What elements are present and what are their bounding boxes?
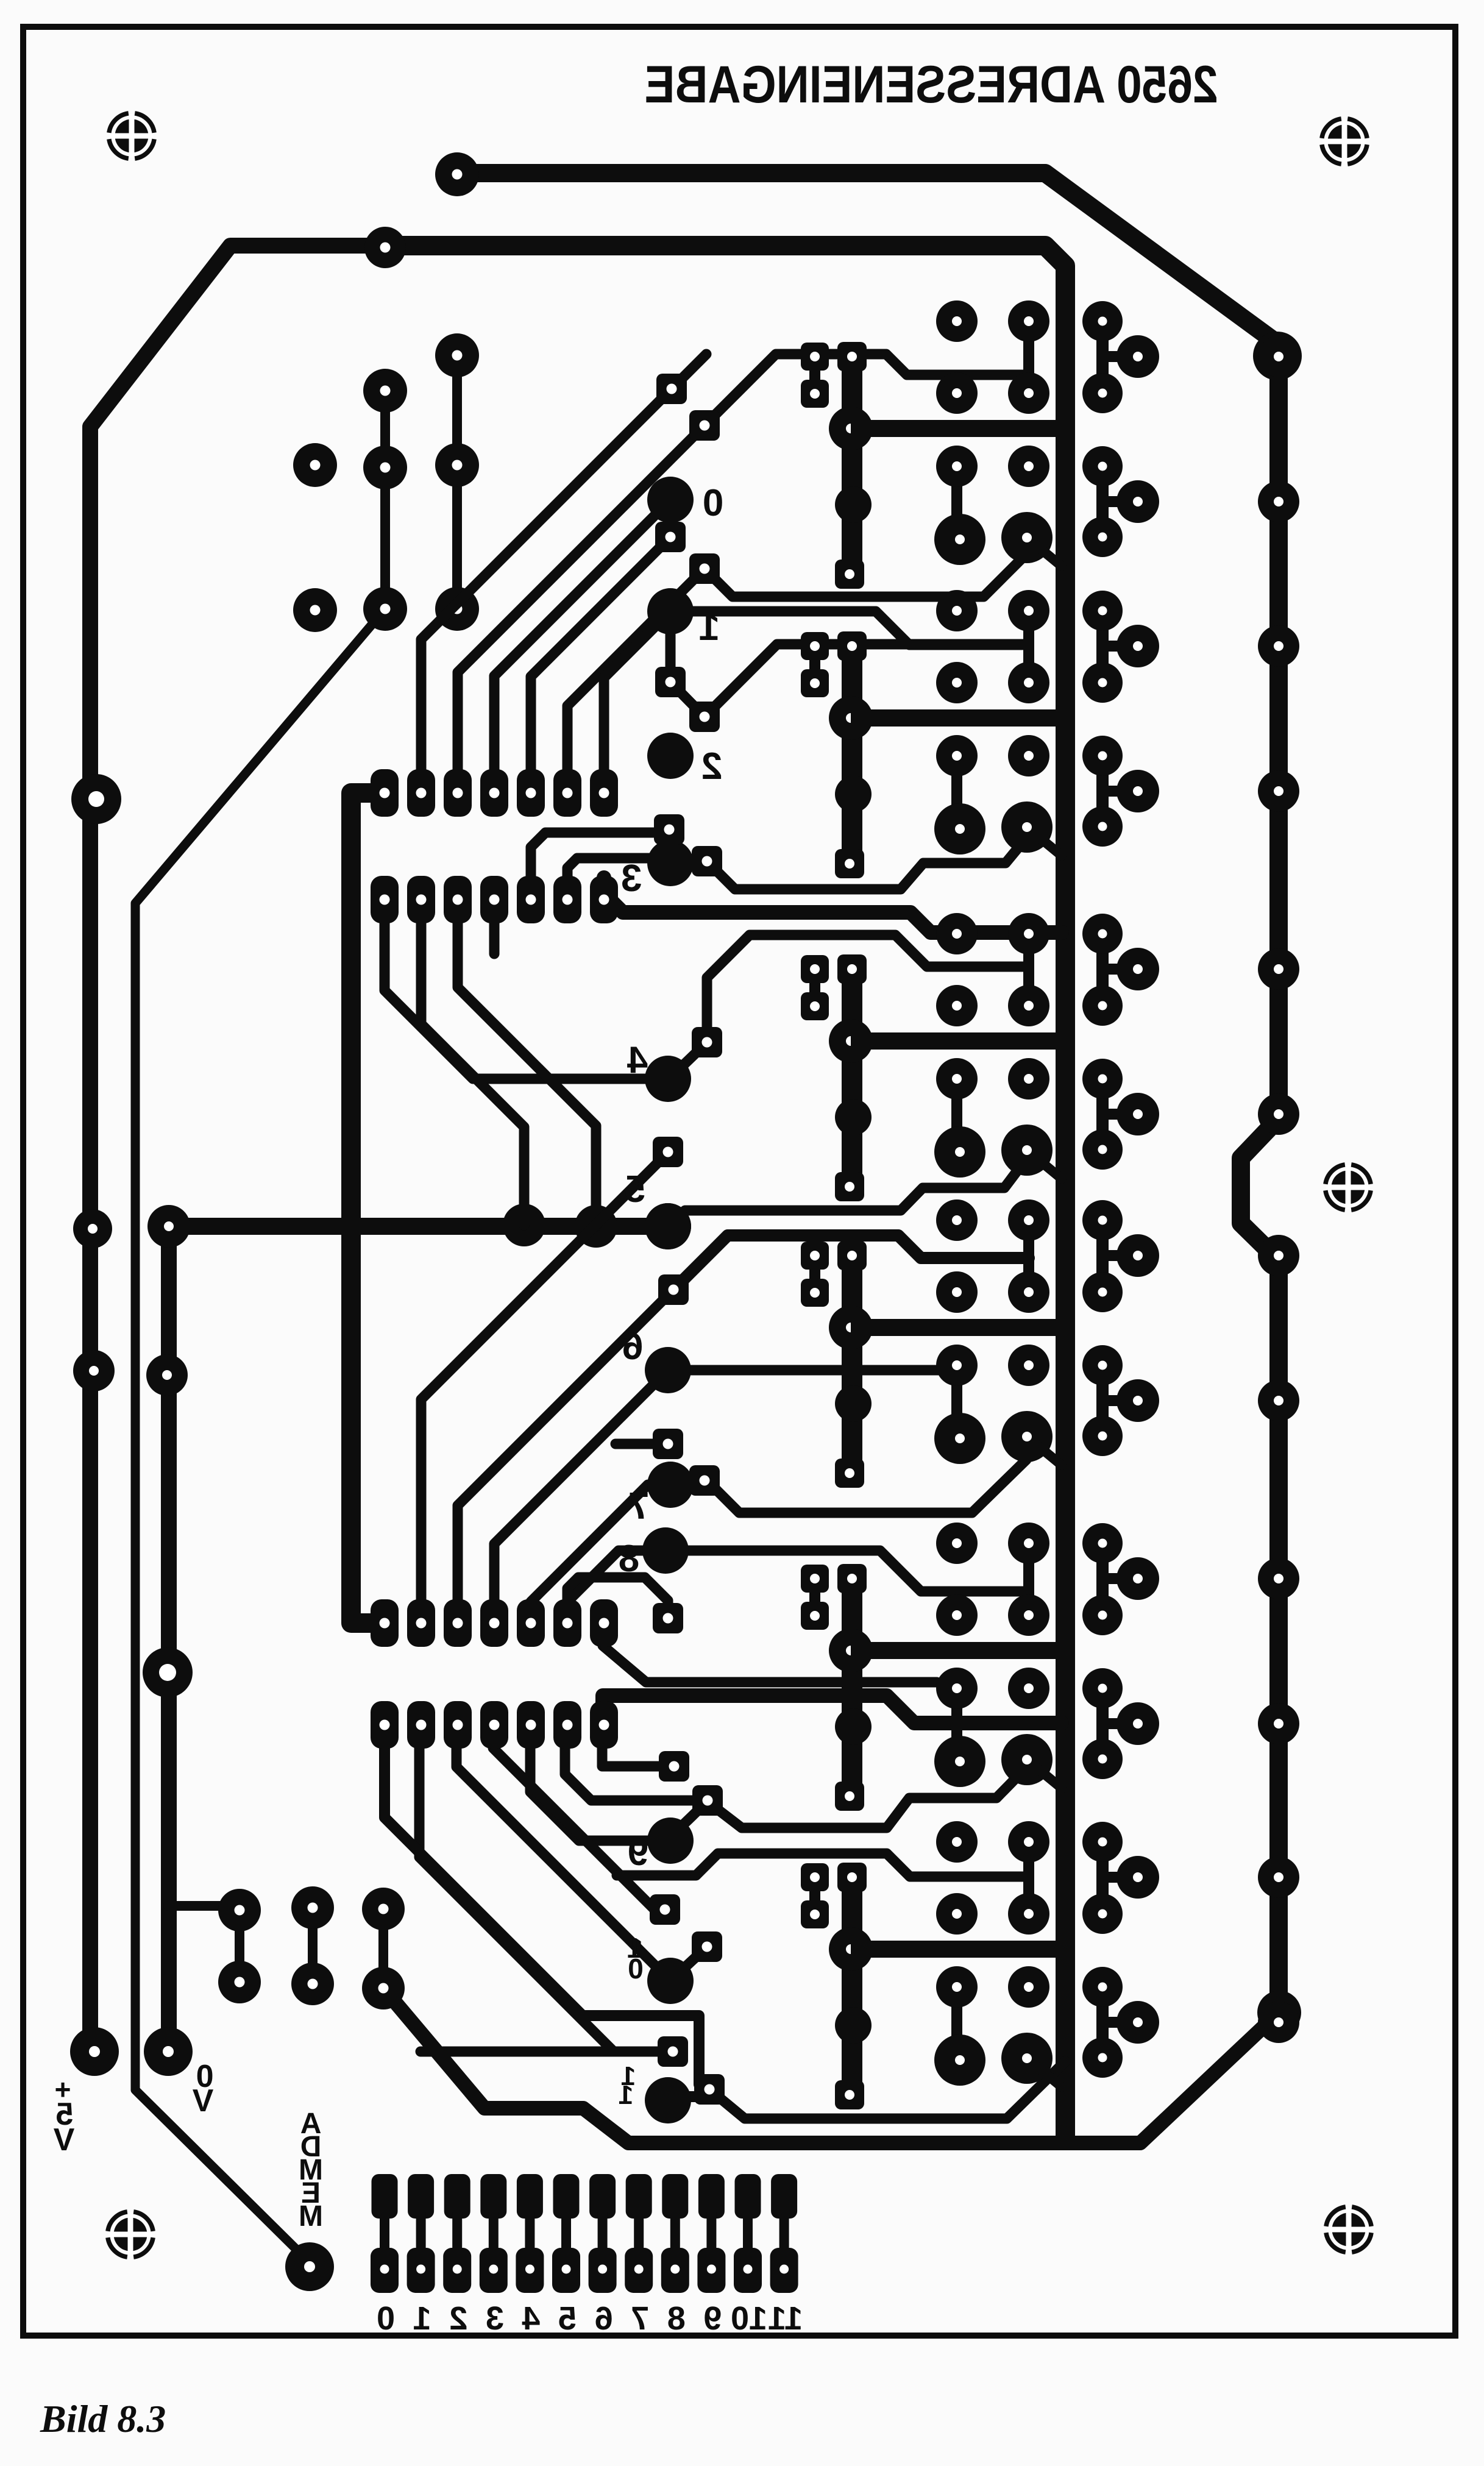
label (300, 2108, 322, 2140)
pad signal 7 (647, 1462, 694, 1508)
wire (616, 1439, 668, 1449)
pad square (689, 410, 720, 441)
label (619, 2080, 633, 2110)
pad rail corner (1253, 332, 1302, 380)
pad edge connector 10 (734, 2174, 762, 2293)
svg-text:8: 8 (667, 2300, 686, 2337)
pad edge connector 9 (697, 2174, 725, 2293)
label edge 11 (768, 2300, 803, 2337)
pad chain (363, 446, 407, 489)
wire (603, 1696, 1062, 1723)
wire (421, 923, 524, 1225)
registration mark (109, 113, 154, 158)
pad header row1 (444, 769, 472, 817)
wire ADMEM (135, 609, 385, 2262)
label 2 (701, 745, 722, 787)
label (299, 2154, 323, 2186)
wire (603, 1622, 937, 1682)
wire (567, 858, 670, 878)
pad chain (435, 333, 479, 377)
pad header rowA (517, 1599, 545, 1647)
svg-text:9: 9 (628, 1832, 648, 1874)
via +5V line (71, 774, 121, 824)
label 10 (627, 1932, 643, 1964)
pad signal 6 (645, 1347, 691, 1393)
label 4 (627, 1039, 648, 1081)
pad edge connector 4 (516, 2174, 544, 2293)
pad header rowA (553, 1599, 581, 1647)
pad square (659, 1751, 689, 1782)
pad square (654, 814, 684, 845)
wire (531, 833, 669, 878)
pad on node5 line b (575, 1205, 617, 1248)
wire (709, 2061, 1065, 2119)
wire (666, 1551, 1029, 1591)
pad square (694, 2074, 725, 2105)
pad +5V line (73, 1209, 112, 1248)
label (299, 2200, 323, 2233)
wire 0V line (161, 1226, 177, 2036)
svg-text:11: 11 (768, 2300, 803, 2337)
pad signal 10 (647, 1958, 694, 2004)
svg-text:0: 0 (703, 482, 723, 524)
label (56, 2097, 74, 2132)
wire (670, 611, 1029, 645)
pad square (689, 1465, 720, 1496)
pad +5V line 2 (73, 1350, 115, 1391)
pad chain (363, 587, 407, 631)
wire (494, 1370, 668, 1602)
svg-text:0: 0 (628, 1953, 644, 1985)
wire dumbbell b (308, 1908, 318, 1984)
pad chain (435, 587, 479, 631)
pad edge connector 8 (661, 2174, 689, 2293)
pad dumbbell (362, 1888, 405, 1930)
label 7 (628, 1485, 649, 1527)
pad square (689, 702, 720, 732)
svg-text:1: 1 (619, 2080, 633, 2110)
wire (385, 1748, 699, 2084)
label 0 (703, 482, 723, 524)
pad square (692, 1027, 722, 1057)
svg-text:Bild 8.3: Bild 8.3 (40, 2397, 166, 2440)
label (55, 2073, 71, 2105)
label edge 0 (377, 2300, 395, 2337)
wire (707, 835, 1029, 889)
pad header row2 (407, 876, 435, 923)
label (300, 2131, 322, 2163)
pad header rowA (371, 1599, 399, 1647)
pad header row1 (480, 769, 508, 817)
wire (531, 1485, 670, 1602)
wire (670, 611, 705, 717)
pad edge connector 7 (625, 2174, 653, 2293)
wire dumbbell a (235, 1910, 244, 1982)
wire (421, 2047, 673, 2057)
pad dumbbell (362, 1967, 405, 2009)
svg-text:6: 6 (595, 2300, 613, 2337)
label (301, 2177, 321, 2209)
label edge 7 (631, 2300, 649, 2337)
wire (668, 1365, 939, 1376)
pad square (653, 1137, 683, 1167)
label 9 (628, 1832, 648, 1874)
wire (705, 644, 1029, 717)
pad header rowB (371, 1701, 399, 1749)
wire (668, 1156, 1029, 1226)
svg-text:4: 4 (522, 2300, 540, 2337)
svg-text:10: 10 (731, 2300, 767, 2337)
svg-text:2650 ADRESSENEINGABE: 2650 ADRESSENEINGABE (645, 55, 1218, 114)
wire (705, 354, 1029, 425)
pad dumbbell (291, 1886, 334, 1929)
label edge 10 (731, 2300, 767, 2337)
wire bottom rail (383, 1988, 1279, 2143)
svg-text:1: 1 (699, 606, 720, 648)
pad square (692, 1785, 723, 1816)
wire 0V stub (168, 1901, 240, 1911)
pad chain (435, 443, 479, 487)
wire (385, 923, 668, 1079)
wire (602, 1748, 674, 1766)
pad header row1 (407, 769, 435, 817)
label (196, 2059, 214, 2094)
pad signal 9 (647, 1818, 694, 1864)
pad square (650, 1894, 680, 1925)
IC block U3 (801, 913, 1299, 1201)
wire (456, 1748, 670, 1981)
pad chain (363, 369, 407, 413)
label (628, 1953, 644, 1985)
registration mark (1322, 119, 1367, 164)
label (192, 2083, 213, 2119)
pad header row2 (371, 876, 399, 923)
svg-text:4: 4 (627, 1039, 648, 1081)
pad signal 11 (645, 2077, 691, 2123)
pad header row1 (553, 769, 581, 817)
pad edge connector 5 (552, 2174, 580, 2293)
pad on bus (364, 227, 406, 268)
label 3 (621, 858, 642, 900)
pad square (692, 846, 722, 876)
label (53, 2122, 74, 2158)
wire (666, 500, 676, 537)
label edge 4 (522, 2300, 540, 2337)
wire (567, 1577, 668, 1615)
pad square (658, 1274, 689, 1305)
pad top rail start (435, 152, 479, 196)
pad square (653, 1429, 683, 1459)
wire (670, 1803, 706, 1838)
pad edge connector 2 (443, 2174, 471, 2293)
label 6 (622, 1326, 643, 1368)
pad header rowB (480, 1701, 508, 1749)
wire (530, 1748, 670, 1841)
pad header rowA (480, 1599, 508, 1647)
wire (672, 354, 706, 389)
wire (567, 1551, 666, 1602)
pad signal 0 (647, 477, 694, 523)
pad header rowA (590, 1599, 618, 1647)
pad square (655, 522, 686, 552)
pad header row1 (590, 769, 618, 817)
via 0V line (143, 1647, 193, 1697)
pad square (653, 1603, 683, 1633)
registration mark (108, 2212, 153, 2257)
pad square (655, 667, 686, 697)
title 2650 ADRESSENEINGABE (mirrored) (645, 55, 1218, 114)
IC block U4 (801, 1199, 1299, 1488)
svg-text:5: 5 (558, 2300, 577, 2337)
svg-text:2: 2 (701, 745, 722, 787)
wire (604, 878, 1062, 933)
pad edge connector 6 (589, 2174, 617, 2293)
wire (673, 1235, 1029, 1290)
pad square (656, 374, 687, 404)
label 1 (699, 606, 720, 648)
pad header row1 (371, 769, 399, 817)
svg-text:7: 7 (631, 2300, 649, 2337)
pad header rowB (590, 1701, 618, 1749)
wire (604, 611, 670, 772)
wire (458, 1290, 673, 1602)
wire (458, 425, 705, 772)
svg-text:1: 1 (413, 2300, 431, 2337)
svg-text:V: V (53, 2122, 74, 2158)
pad rail bottom corner (1257, 1991, 1301, 2034)
pad dumbbell (218, 1889, 261, 1931)
pad edge connector 11 (770, 2174, 798, 2293)
label edge 2 (449, 2300, 467, 2337)
pad on node5 line a (503, 1204, 545, 1246)
wire (458, 923, 596, 1226)
pad dumbbell (218, 1961, 261, 2003)
label edge 6 (595, 2300, 613, 2337)
pad header rowA (444, 1599, 472, 1647)
wire (705, 553, 1027, 597)
wire (617, 1853, 1029, 1877)
pad header rowB (553, 1701, 581, 1749)
label edge 5 (558, 2300, 577, 2337)
pad header rowA (407, 1599, 435, 1647)
wire main bus (383, 246, 1065, 2138)
registration mark (1326, 1165, 1371, 1210)
wire (670, 1948, 706, 1981)
IC block U2 (801, 590, 1299, 878)
svg-text:3: 3 (486, 2300, 504, 2337)
pad edge connector 0 (371, 2174, 399, 2293)
wire (421, 1153, 668, 1602)
svg-text:5: 5 (625, 1168, 645, 1210)
wire node 5 horizontal (169, 1218, 668, 1235)
svg-text:M: M (299, 2200, 323, 2233)
pad square (658, 2036, 688, 2067)
pad signal 1 (647, 588, 694, 634)
pad +5V terminal (70, 2027, 119, 2076)
wire (531, 537, 670, 772)
pad signal 3 (647, 840, 694, 886)
IC block U1 (801, 300, 1299, 589)
wire (494, 500, 670, 772)
svg-text:7: 7 (628, 1485, 649, 1527)
pad header row1 (517, 769, 545, 817)
wire (567, 569, 705, 772)
svg-text:8: 8 (619, 1538, 639, 1580)
pad header rowB (444, 1701, 472, 1749)
label edge 9 (703, 2300, 722, 2337)
pad 0V terminal (144, 2027, 193, 2076)
wire +5V top rail loop (456, 173, 1279, 2013)
pad header row2 (480, 876, 508, 923)
pad signal 5 circle (645, 1203, 691, 1249)
pad 0V line (146, 1354, 188, 1396)
wire (708, 1768, 1026, 1828)
label 8 (619, 1538, 639, 1580)
IC block U5 (801, 1523, 1299, 1811)
wire (489, 923, 500, 954)
label edge 1 (413, 2300, 431, 2337)
pad edge connector 1 (407, 2174, 435, 2293)
pad header row2 (444, 876, 472, 923)
wire (419, 1748, 673, 2052)
label 11 (621, 2061, 636, 2091)
label edge 3 (486, 2300, 504, 2337)
pad header rowB (517, 1701, 545, 1749)
svg-text:3: 3 (621, 858, 642, 900)
pad header row2 (553, 876, 581, 923)
wire (421, 389, 672, 772)
wire (493, 1748, 665, 1910)
pad header row2 (590, 876, 618, 923)
pad ADMEM terminal (285, 2242, 334, 2291)
wire (707, 1460, 1026, 1513)
IC block U6 (801, 1821, 1299, 2109)
pad signal 2 (647, 733, 694, 779)
label edge 8 (667, 2300, 686, 2337)
pad square (689, 553, 720, 584)
pad 0V line top (147, 1205, 190, 1248)
svg-text:2: 2 (449, 2300, 467, 2337)
wire chain b (452, 355, 462, 609)
wire +5V left line (90, 246, 383, 2036)
pad header row2 (517, 876, 545, 923)
wire dumbbell c (378, 1909, 388, 1988)
svg-text:0: 0 (377, 2300, 395, 2337)
pad chain (293, 443, 337, 487)
pad signal 5 (645, 1203, 691, 1249)
wire (670, 1044, 705, 1078)
wire (565, 1748, 708, 1800)
pad header rowB (407, 1701, 435, 1749)
pad dumbbell (291, 1963, 334, 2005)
pad edge connector 3 (480, 2174, 508, 2293)
wire mid bus (351, 793, 385, 1623)
wire (707, 935, 1029, 1042)
pad signal 4 (645, 1056, 691, 1102)
wire chain a (380, 391, 390, 609)
label 5 (625, 1168, 645, 1210)
wire (668, 2091, 709, 2102)
svg-text:9: 9 (703, 2300, 722, 2337)
svg-text:6: 6 (622, 1326, 643, 1368)
pad square (692, 1931, 722, 1962)
registration mark (1326, 2207, 1371, 2252)
svg-text:V: V (192, 2083, 213, 2119)
pad signal 8 (642, 1527, 689, 1574)
pad chain (293, 588, 337, 632)
